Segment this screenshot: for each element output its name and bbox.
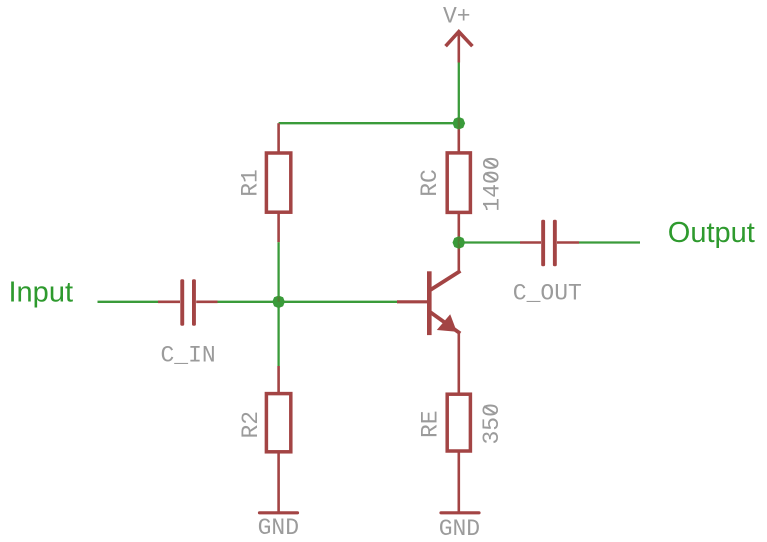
- transistor Q1 emitter pin: [457, 332, 460, 393]
- svg-text:C_OUT: C_OUT: [513, 281, 582, 307]
- resistor RE pin top: [457, 393, 460, 395]
- resistor RC pin top: [457, 123, 460, 152]
- wire V+ to node VCC: [458, 63, 460, 124]
- svg-text:RE: RE: [417, 410, 443, 438]
- svg-text:C_IN: C_IN: [161, 343, 216, 369]
- resistor R1 body: [266, 153, 290, 212]
- transistor Q1 base pin: [397, 300, 427, 303]
- svg-text:R2: R2: [238, 411, 264, 439]
- wire Input to C_IN: [98, 301, 159, 303]
- wire top horizontal R1 to node VCC: [279, 122, 459, 124]
- capacitor C_OUT plate left: [541, 220, 545, 266]
- svg-text:350: 350: [479, 403, 505, 444]
- transistor Q1 emitter diagonal: [431, 312, 461, 333]
- ground GND right bar: [441, 511, 479, 514]
- wire C_OUT to Output: [579, 241, 640, 243]
- resistor R1 pin top: [277, 123, 280, 152]
- transistor Q1 collector pin: [457, 243, 460, 273]
- resistor R1 pin bottom: [277, 213, 280, 242]
- svg-text:V+: V+: [443, 4, 471, 30]
- resistor R2 pin top: [277, 366, 280, 393]
- junction node output: [453, 236, 466, 249]
- capacitor C_OUT plate right: [553, 220, 557, 266]
- wire output node to C_OUT: [459, 241, 520, 243]
- resistor RE pin bottom: [457, 451, 460, 512]
- transistor Q1 emitter arrow: [437, 314, 457, 332]
- wire R1 to base node: [277, 242, 279, 302]
- capacitor C_IN plate right: [192, 279, 196, 325]
- wire base node down to R2: [277, 302, 279, 366]
- resistor RE body: [447, 394, 470, 451]
- svg-text:GND: GND: [439, 516, 480, 542]
- resistor R2 pin bottom: [277, 452, 280, 511]
- supply symbol V+ pin: [457, 33, 460, 63]
- capacitor C_OUT pin right: [557, 241, 579, 244]
- capacitor C_OUT pin left: [520, 241, 541, 244]
- svg-text:Output: Output: [668, 217, 755, 249]
- svg-text:R1: R1: [238, 169, 264, 197]
- wire base node to transistor: [279, 301, 397, 303]
- junction node VCC: [453, 117, 466, 130]
- transistor Q1 collector diagonal: [431, 271, 461, 290]
- resistor R2 body: [266, 394, 290, 452]
- supply symbol V+ arrow: [446, 32, 473, 47]
- svg-text:Input: Input: [9, 277, 74, 309]
- wire C_IN to base node: [218, 301, 279, 303]
- resistor RC pin bottom: [457, 214, 460, 243]
- ground GND left bar: [260, 511, 298, 514]
- svg-text:GND: GND: [258, 515, 299, 541]
- capacitor C_IN pin right: [196, 300, 217, 303]
- resistor RC body: [447, 153, 470, 213]
- transistor Q1 base bar: [427, 271, 432, 335]
- svg-text:RC: RC: [417, 169, 443, 197]
- junction node base: [272, 296, 285, 309]
- capacitor C_IN plate left: [180, 279, 184, 325]
- capacitor C_IN pin left: [158, 300, 180, 303]
